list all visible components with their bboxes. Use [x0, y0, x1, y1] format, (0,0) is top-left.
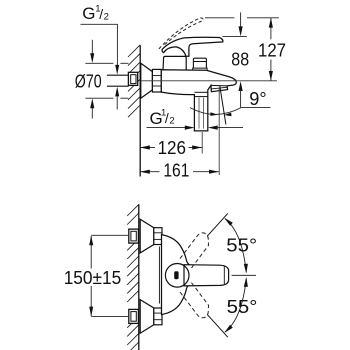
shower outlet thread lines	[198, 98, 200, 129]
svg-text:2: 2	[104, 11, 109, 22]
shower outlet bands	[194, 91, 207, 93]
union square nut (plan)	[129, 309, 139, 323]
faucet body (plan view)	[162, 235, 190, 315]
svg-text:127: 127	[258, 40, 286, 60]
aerator vertical extension line	[218, 88, 220, 175]
escutcheon cone (side view)	[141, 63, 153, 98]
dashed handle rotated down 55deg	[180, 282, 209, 318]
wall hatching (side view)	[128, 45, 140, 117]
svg-text:150±15: 150±15	[64, 268, 122, 288]
wall surface line (plan view)	[138, 204, 140, 350]
hex nut facet lines	[152, 75, 161, 77]
lever blade (plan, rest)	[184, 265, 229, 286]
faucet body silhouette (side view)	[161, 70, 236, 131]
concealed union square nut	[128, 72, 137, 85]
55deg ray lower	[207, 314, 228, 337]
dimension 88	[240, 12, 242, 28]
dimension 161	[140, 171, 160, 173]
G1/2 bottom leader with arrow	[147, 127, 187, 129]
55deg ray upper	[207, 213, 228, 236]
O70 extension lines	[85, 63, 128, 98]
55deg arc lower	[225, 279, 246, 332]
union hex nut (plan)	[154, 228, 162, 245]
svg-text:55°: 55°	[227, 297, 258, 317]
svg-text:161: 161	[163, 161, 189, 181]
svg-text:126: 126	[158, 138, 186, 158]
svg-text:Ø70: Ø70	[75, 71, 102, 91]
water stream line 9deg	[220, 86, 226, 125]
dashed handle rotated up 55deg	[180, 233, 209, 269]
svg-text:G: G	[82, 4, 95, 23]
svg-text:55°: 55°	[226, 236, 257, 256]
extension line shower outlet centre	[201, 132, 203, 154]
lever base circle (plan)	[165, 264, 189, 288]
union hex nut (plan)	[154, 308, 162, 325]
escutcheon cone (plan)	[140, 300, 154, 334]
escutcheon cone (plan)	[140, 219, 154, 253]
svg-text:88: 88	[231, 49, 249, 69]
extension line top of raised lever	[205, 17, 234, 19]
lever handle (rest position)	[162, 37, 223, 56]
wall hatching (plan view)	[127, 204, 139, 350]
body mounting plate edge (plan)	[158, 247, 160, 304]
svg-text:/: /	[165, 110, 169, 126]
svg-text:9°: 9°	[249, 89, 266, 109]
O70 dimension arrows	[91, 40, 93, 54]
lever handle raised position (dashed)	[159, 18, 203, 49]
wall surface line (side view)	[139, 45, 141, 176]
9 degree arc with arrows	[190, 107, 242, 114]
diverter knob	[193, 58, 206, 70]
55deg arc upper	[225, 219, 246, 272]
dimension 127	[270, 18, 272, 40]
dimension 126	[140, 147, 155, 149]
extension line top of lever rest	[223, 36, 247, 38]
dimension 150 +/- 15	[91, 234, 128, 236]
aerator lines	[211, 84, 227, 87]
centre line of faucet body (side view)	[141, 80, 277, 82]
svg-text:2: 2	[169, 115, 174, 126]
9 degree leader line	[242, 106, 271, 108]
union hex nut (side view)	[152, 69, 161, 92]
cartridge dome	[163, 56, 186, 70]
centreline right of lever (plan)	[232, 274, 256, 276]
lever slot detail	[174, 271, 178, 279]
G1/2 top leader with arrows to pipe	[81, 24, 118, 66]
union square nut (plan)	[129, 229, 139, 243]
supply pipe behind wall	[107, 75, 129, 86]
